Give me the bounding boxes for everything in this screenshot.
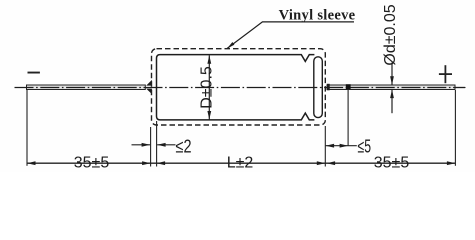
right lead L2: [327, 85, 455, 90]
arrow Ød up: [390, 90, 394, 99]
vinyl sleeve dashed outline: [152, 49, 326, 125]
svg-text:≤5: ≤5: [358, 137, 372, 157]
extension line body left: [156, 121, 158, 167]
black square solder point: [346, 84, 351, 89]
leader line to sleeve: [227, 22, 354, 49]
arrow D top: [207, 55, 211, 64]
arrow ≤5 right: [340, 144, 349, 148]
svg-text:Ød±0.05: Ød±0.05: [382, 4, 399, 65]
svg-text:D±0.5: D±0.5: [199, 66, 216, 109]
arrow Ød down: [390, 76, 394, 85]
dim ≤2 left tail: [132, 144, 151, 146]
extension line right lead end: [454, 90, 456, 166]
extension line sleeve left: [150, 127, 152, 167]
svg-text:Vinyl sleeve: Vinyl sleeve: [279, 7, 356, 23]
arrow 35 left inner: [142, 161, 151, 165]
minus polarity mark: [28, 72, 40, 74]
right lead tail: [455, 87, 466, 89]
arrow L left: [157, 161, 166, 165]
svg-text:35±5: 35±5: [74, 155, 110, 172]
bottom dimension line: [27, 162, 455, 164]
extension line sleeve right: [324, 126, 326, 167]
arrow 35 left outer: [27, 161, 36, 165]
svg-text:≤2: ≤2: [176, 137, 192, 157]
svg-text:35±5: 35±5: [374, 155, 410, 172]
plus polarity mark: [439, 65, 452, 83]
arrow ≤2 left: [142, 143, 151, 147]
extension line solder point: [347, 90, 349, 147]
dim Ød lower arrow line: [391, 90, 393, 114]
arrow ≤5 left: [326, 144, 335, 148]
left lead L1: [27, 85, 146, 90]
extension line left lead end: [26, 90, 28, 166]
arrow L right: [317, 161, 326, 165]
left lead flare: [146, 80, 152, 94]
svg-text:L±2: L±2: [227, 155, 254, 172]
dim ≤2 right tail: [157, 144, 175, 146]
arrow D bottom: [207, 111, 211, 120]
rubber bung end seal: [314, 57, 323, 118]
dim Ød upper arrow line: [391, 63, 393, 85]
arrow ≤2 right: [157, 143, 166, 147]
right lead flare: [327, 84, 330, 91]
dim ≤5 line: [326, 145, 357, 147]
arrow 35 right inner: [327, 161, 336, 165]
capacitor body outline: [157, 55, 315, 120]
leader arrowhead: [227, 42, 234, 48]
centerline axis: [15, 87, 466, 89]
dim D vertical line: [208, 55, 210, 119]
arrow 35 right outer: [447, 161, 456, 165]
